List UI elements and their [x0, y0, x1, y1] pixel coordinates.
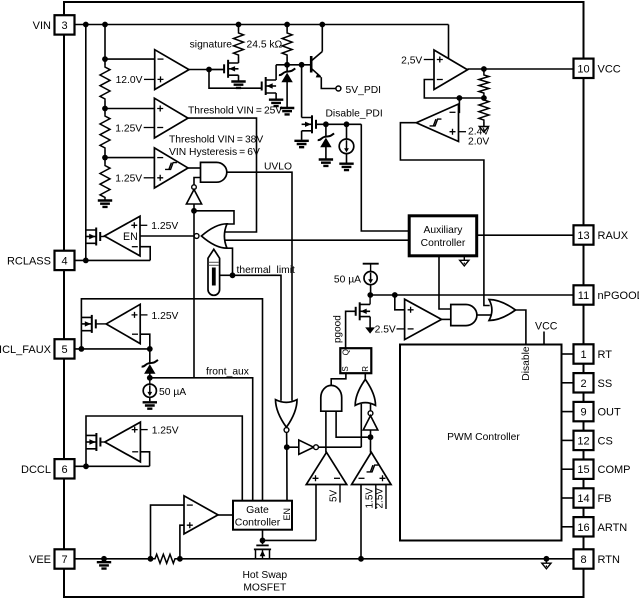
wire EN gate output to EN comparator	[140, 235, 194, 237]
ground I1	[339, 164, 353, 170]
wire A3 input1 from U8	[325, 411, 327, 452]
wire U5 output to VCC pin	[468, 68, 574, 70]
wire G2 input	[370, 430, 372, 437]
nor-gate EN output bubble	[194, 234, 199, 239]
wire M2 gate lead	[209, 69, 224, 71]
node U5 output	[481, 66, 487, 72]
svg-text:S: S	[341, 366, 350, 371]
resistor R sense	[154, 554, 177, 563]
wire U7 output to AND	[442, 318, 451, 320]
svg-text:12: 12	[577, 435, 589, 447]
svg-text:Threshold VIN = 25V: Threshold VIN = 25V	[188, 106, 282, 117]
ground Z2	[319, 160, 333, 166]
op-amp U10 ICL comparator	[106, 304, 140, 343]
svg-text:6: 6	[61, 464, 67, 476]
svg-text:10: 10	[577, 63, 589, 75]
wire M7 gate to U11	[100, 441, 105, 443]
svg-text:2,5V: 2,5V	[401, 55, 422, 66]
wire A2 output to OR	[477, 314, 491, 316]
svg-text:Controller: Controller	[421, 238, 466, 249]
node front_aux left	[147, 375, 153, 381]
transistor M7 DCCL MOSFET	[86, 435, 96, 448]
wire tap1 to comparator U1 inverting input	[105, 58, 155, 60]
wire Z2 to ground	[325, 147, 327, 160]
wire nPGOOD net	[370, 294, 573, 296]
svg-text:CS: CS	[598, 435, 613, 447]
wire VIN to RCLASS MOSFET M1 drain-source column	[85, 25, 87, 261]
svg-text:2.0V: 2.0V	[468, 136, 489, 147]
wire U1 output	[189, 69, 224, 71]
wire O1 output to PWM Disable	[516, 310, 526, 345]
ground I3	[143, 402, 157, 408]
and-gate UVLO	[201, 162, 227, 182]
svg-text:VIN Hysteresis = 6V: VIN Hysteresis = 6V	[169, 147, 260, 158]
node O3 output junction	[284, 444, 290, 450]
node nPGOOD comparator tap	[392, 292, 398, 298]
pin 5 ICL_FAUX box	[55, 339, 75, 358]
node U9 minus tap	[358, 556, 364, 562]
pin 12 CS box	[574, 431, 594, 450]
node sense right	[177, 556, 183, 562]
inverter G3 bubble	[314, 445, 319, 450]
resistor R feedback bottom	[479, 98, 489, 122]
svg-text:5V_PDI: 5V_PDI	[346, 85, 382, 96]
svg-text:PWM Controller: PWM Controller	[447, 432, 520, 443]
wire RCLASS pin net	[75, 259, 151, 261]
inverter G2 bubble	[368, 411, 373, 416]
wire tap2 to comparator U2 plus input	[105, 108, 154, 110]
wire U11 minus loop	[140, 452, 149, 467]
wire PWM pin stub	[562, 353, 574, 355]
svg-text:front_aux: front_aux	[206, 366, 250, 377]
wire gate node to U8 plus input	[263, 539, 317, 541]
wire PWM pin stub	[562, 382, 574, 384]
svg-text:24.5 kΩ: 24.5 kΩ	[247, 39, 283, 50]
wire EN gate bottom input to thermal node	[227, 248, 233, 275]
node G2 input junction	[368, 434, 374, 440]
and-gate A3 (points up)	[321, 385, 342, 411]
svg-text:1: 1	[580, 349, 586, 361]
svg-text:9: 9	[580, 407, 586, 419]
wire I3 to ground	[149, 397, 151, 401]
wire PWM pin stub	[562, 411, 574, 413]
node ladder tap 3	[102, 155, 108, 161]
svg-text:12.0V: 12.0V	[116, 75, 143, 86]
svg-text:Auxiliary: Auxiliary	[424, 225, 464, 236]
pin 9 OUT box	[574, 402, 594, 421]
wire U12 output to Gate Controller	[218, 514, 233, 516]
diode Z1 signature zener	[286, 65, 288, 72]
wire Z1 to ground	[286, 82, 288, 107]
wire thermal_limit to NOR input	[233, 275, 282, 401]
wire Disable_PDI net	[316, 123, 361, 125]
wire ICL_FAUX pin net	[75, 348, 150, 350]
svg-text:COMP: COMP	[598, 464, 631, 476]
ground ladder	[98, 201, 112, 207]
svg-text:7: 7	[61, 554, 67, 566]
wire EN gate input2	[223, 231, 225, 233]
wire G3 output to O2 left input	[318, 446, 361, 448]
wire Gate Controller output node	[262, 530, 264, 545]
op-amp U4 EN classification comparator	[104, 216, 140, 256]
nor-gate EN (points left) body	[201, 224, 227, 248]
pin 7 VEE box	[55, 549, 75, 568]
label 1.25V U10	[140, 314, 147, 316]
wire Auxiliary Controller bottom to AND	[439, 256, 451, 309]
wire U2 output to EN gate input	[188, 118, 257, 232]
wire M4 source to ground	[301, 131, 303, 140]
svg-text:4: 4	[61, 255, 67, 267]
terminal 5V_PDI	[336, 86, 341, 91]
node ICL junction 2	[147, 346, 153, 352]
svg-text:R: R	[361, 366, 370, 372]
pin 16 ARTN box	[574, 517, 594, 536]
svg-text:VIN: VIN	[33, 20, 51, 32]
current source I2 50uA	[370, 264, 372, 272]
node ICL junction 1	[79, 346, 85, 352]
op-amp U12 gate drive comparator	[184, 496, 218, 534]
svg-text:Gate: Gate	[246, 504, 269, 516]
inverter G2 triangle (points up)	[363, 416, 378, 430]
wire feedback tap to U6 inverting input	[458, 98, 461, 112]
wire thermometer to thermal node	[220, 274, 233, 276]
op-amp U7 pgood comparator	[405, 299, 442, 339]
svg-text:EN: EN	[282, 508, 292, 521]
ground arrow RTN	[545, 559, 547, 563]
wire O2 right input to inverter G2	[370, 404, 372, 411]
wire PWM pin stub	[562, 526, 574, 528]
svg-text:RAUX: RAUX	[598, 230, 629, 242]
wire M5 gate to latch Q	[346, 311, 356, 348]
wire Q1 collector to VIN rail	[321, 25, 323, 52]
svg-text:3: 3	[61, 20, 67, 32]
wire tap3 to comparator U3 inverting input	[105, 157, 154, 159]
wire U8 plus input down	[315, 485, 317, 541]
wire U4 minus loop to RCLASS pin	[140, 247, 150, 261]
pin 4 RCLASS box	[55, 251, 75, 270]
svg-text:MOSFET: MOSFET	[243, 582, 287, 593]
wire DCCL pin net	[75, 465, 150, 467]
svg-text:ARTN: ARTN	[598, 522, 628, 534]
op-amp U6 VCC UVLO schmitt (points left)	[416, 104, 458, 142]
wire U8 minus ref stub	[339, 485, 341, 503]
op-amp U2 threshold comparator	[154, 98, 188, 138]
label 1.25V U4	[140, 224, 147, 226]
svg-text:RCLASS: RCLASS	[7, 255, 51, 267]
diode Z3 ICL zener	[149, 349, 151, 364]
wire I1 to ground	[346, 154, 348, 163]
svg-text:Disable: Disable	[521, 346, 532, 381]
transistor M5 pgood MOSFET	[369, 295, 371, 304]
transistor M8 Hot Swap MOSFET	[256, 544, 268, 546]
wire PWM pin stub	[562, 468, 574, 470]
block PWM Controller	[400, 345, 562, 541]
op-amp U8 5V comparator (points up)	[306, 452, 347, 484]
nor-gate O3 output bubble	[284, 428, 289, 433]
node VIN rail junction	[102, 22, 108, 28]
svg-text:1.25V: 1.25V	[152, 311, 179, 322]
wire O2 left input	[360, 404, 362, 447]
svg-text:5: 5	[61, 344, 67, 356]
svg-text:nPGOOD: nPGOOD	[598, 290, 639, 302]
node RTN arrow tap	[544, 556, 550, 562]
op-amp U3 UVLO schmitt comparator	[154, 148, 188, 188]
node VIN rail junction	[319, 22, 325, 28]
wire G1 input	[193, 204, 195, 211]
svg-text:Threshold VIN = 38V: Threshold VIN = 38V	[169, 134, 263, 145]
wire AND second input stub	[194, 178, 201, 185]
node thermal_limit	[230, 272, 236, 278]
node nPGOOD pgood-fet tap	[367, 292, 373, 298]
resistor R signature	[238, 25, 240, 32]
wire front_aux vertical	[193, 211, 195, 378]
wire M5 source to arrow ground	[369, 317, 371, 328]
wire I2 to nPGOOD net	[370, 285, 372, 295]
svg-text:8: 8	[580, 554, 586, 566]
svg-text:pgood: pgood	[333, 315, 344, 343]
op-amp U5 VCC regulator comparator	[434, 50, 468, 90]
wire base node	[276, 64, 311, 66]
wire U9 plus ref stub 1.5V	[375, 485, 377, 510]
wire PWM pin stub	[562, 497, 574, 499]
resistor ladder R1	[100, 65, 110, 101]
wire PWM pin stub	[562, 439, 574, 441]
node ladder tap 1	[102, 56, 108, 62]
svg-text:16: 16	[577, 522, 589, 534]
svg-text:1.5V: 1.5V	[364, 488, 375, 509]
svg-text:1.25V: 1.25V	[115, 123, 142, 134]
wire VEE rail left	[75, 558, 154, 560]
inverter G1 triangle	[186, 190, 201, 205]
svg-text:2.5V: 2.5V	[375, 488, 386, 509]
pin 3 VIN box	[55, 15, 75, 34]
svg-text:1.25V: 1.25V	[152, 426, 179, 437]
svg-text:RT: RT	[598, 349, 613, 361]
wire VIN rail	[75, 24, 449, 26]
wire U10 minus loop	[140, 334, 150, 349]
svg-text:2: 2	[580, 378, 586, 390]
wire junction to U9 output	[370, 437, 372, 452]
svg-text:FB: FB	[598, 493, 612, 505]
pin 8 RTN box	[574, 549, 594, 568]
svg-text:11: 11	[578, 290, 589, 302]
ground arrow Auxiliary Controller	[463, 256, 465, 260]
wire junction to inverter G3	[287, 446, 299, 448]
transistor M6 ICL MOSFET	[81, 317, 91, 330]
svg-text:VCC: VCC	[598, 63, 621, 75]
svg-text:14: 14	[577, 493, 589, 505]
wire tee to EN gate top input	[194, 211, 234, 224]
op-amp U9 gate schmitt comparator (points up)	[352, 452, 392, 484]
node ladder tap 2	[102, 106, 108, 112]
wire O3 output node	[286, 432, 288, 500]
resistor R feedback top	[483, 69, 485, 73]
op-amp U1 12.0V comparator	[155, 50, 189, 90]
pin 1 RT box	[574, 344, 594, 363]
wire U5 minus feedback loop	[424, 80, 484, 99]
ground M4 source	[294, 141, 308, 147]
node Disable zener tap	[323, 121, 329, 127]
svg-text:SS: SS	[598, 378, 613, 390]
block SR latch	[340, 348, 371, 373]
svg-text:1.25V: 1.25V	[115, 174, 142, 185]
svg-text:ICL_FAUX: ICL_FAUX	[0, 344, 52, 356]
inverter G1 bubble	[192, 185, 197, 190]
wire AND S output to latch	[331, 373, 346, 385]
wire U12 plus to VEE sense	[180, 525, 184, 559]
wire M6 gate to U10	[96, 323, 107, 325]
nor-gate O3 (points down) body	[276, 400, 298, 428]
block Auxiliary Controller	[409, 216, 477, 256]
resistor ladder R2	[100, 114, 110, 150]
ground arrow feedback divider	[479, 127, 488, 133]
svg-text:OUT: OUT	[598, 407, 622, 419]
wire Q1 emitter to 5V_PDI terminal	[321, 77, 336, 88]
node gate junction	[260, 538, 266, 544]
svg-text:Q: Q	[341, 349, 350, 355]
node zener top	[284, 62, 290, 68]
pin 11 nPGOOD box	[574, 285, 594, 304]
node minus loop tap	[457, 95, 463, 101]
wire Disable_PDI to Auxiliary Controller	[361, 124, 409, 231]
svg-text:Hot Swap: Hot Swap	[242, 570, 287, 581]
current source I1	[346, 124, 348, 139]
pin 2 SS box	[574, 373, 594, 392]
op-amp U11 DCCL comparator	[105, 422, 141, 462]
wire ladder mid2	[104, 150, 106, 164]
ground M3 source	[269, 100, 283, 106]
wire ladder mid1	[104, 101, 106, 114]
wire DCCL rail	[86, 416, 242, 501]
pin 14 FB box	[574, 488, 594, 507]
svg-text:50 µA: 50 µA	[159, 387, 186, 398]
svg-text:thermal_limit: thermal_limit	[237, 265, 296, 276]
pin 6 DCCL box	[55, 459, 75, 478]
wire comparator tap to U7 plus	[395, 295, 405, 310]
wire U12 minus to VEE sense	[151, 505, 185, 559]
wire U3 output to AND	[188, 167, 201, 169]
wire M2 source to ground	[238, 75, 240, 80]
wire VEE rail right	[177, 558, 574, 560]
node VIN rail junction	[83, 22, 89, 28]
wire junction to A3 input2	[336, 411, 370, 437]
wire Auxiliary Controller to RAUX	[477, 234, 574, 236]
node VIN rail junction	[284, 22, 290, 28]
wire M3 gate lead	[259, 87, 262, 89]
node front_aux tee	[191, 208, 197, 214]
svg-text:50 µA: 50 µA	[334, 274, 361, 285]
node Disable csrc tap	[344, 121, 350, 127]
svg-text:signature: signature	[190, 39, 233, 50]
svg-text:VEE: VEE	[29, 554, 51, 566]
node M3 drain tap	[299, 62, 305, 68]
wire node to M3 drain column	[275, 65, 277, 80]
or-gate O2 (points up)	[355, 379, 375, 405]
wire U6 output routing	[400, 123, 489, 306]
wire ladder top	[104, 25, 106, 66]
wire OR R output to latch	[364, 373, 366, 379]
and-gate A2 pgood AND	[451, 305, 477, 326]
wire front_aux net	[150, 378, 253, 501]
transistor M2 signature MOSFET	[228, 63, 238, 75]
node RCLASS junction	[83, 258, 89, 264]
transistor M1 RCLASS MOSFET	[86, 230, 96, 243]
wire EN gate input3 to Auxiliary Controller	[225, 239, 410, 241]
label 2.4V 2.0V	[459, 131, 467, 133]
svg-text:RTN: RTN	[598, 554, 620, 566]
node DCCL junction	[83, 463, 89, 469]
resistor R 24.5k	[286, 25, 288, 32]
resistor ladder R3	[100, 164, 110, 200]
wire M3 source to ground	[275, 93, 277, 99]
wire U9 plus ref stub 2.5V	[385, 485, 387, 510]
label 1.25V U11	[140, 429, 147, 431]
current source I3 50uA	[149, 378, 151, 384]
svg-text:EN: EN	[123, 231, 138, 243]
svg-text:13: 13	[577, 230, 589, 242]
transistor M3 PDI MOSFET	[266, 80, 276, 93]
node feedback tap	[481, 95, 487, 101]
wire U1 output to M2 gate	[209, 70, 262, 89]
thermal limit sensor (thermometer)	[208, 249, 220, 295]
ground VEE	[97, 562, 111, 568]
svg-text:Disable_PDI: Disable_PDI	[326, 109, 383, 120]
svg-text:15: 15	[577, 464, 589, 476]
wire ICL rail	[81, 299, 262, 501]
wire M3 drain column down to M4	[301, 65, 303, 118]
diode Z2 Disable zener	[325, 124, 327, 137]
pin 13 RAUX box	[574, 225, 594, 244]
pin 15 COMP box	[574, 460, 594, 479]
svg-text:Controller: Controller	[235, 517, 281, 529]
svg-text:5V: 5V	[329, 489, 340, 502]
node sense left	[148, 556, 154, 562]
wire M1 gate to EN comparator output	[100, 236, 104, 238]
svg-text:1.25V: 1.25V	[151, 221, 178, 232]
svg-text:UVLO: UVLO	[264, 162, 292, 173]
svg-text:2.5V: 2.5V	[375, 325, 396, 336]
or-gate O1 nPGOOD OR	[489, 300, 516, 321]
node U1 output junction	[206, 67, 212, 73]
node VEE ground tap	[101, 556, 107, 562]
wire UVLO net	[227, 172, 292, 401]
ground Z1	[280, 108, 294, 114]
transistor M4 Disable MOSFET	[302, 118, 312, 131]
block Gate Controller	[233, 501, 292, 530]
wire VCC stub to PWM	[543, 332, 545, 345]
node VIN rail junction	[236, 22, 242, 28]
pin 10 VCC box	[574, 59, 594, 78]
svg-text:VCC: VCC	[535, 321, 558, 333]
rail bar 50uA supply	[363, 263, 379, 265]
transistor Q1 NPN	[310, 56, 313, 73]
wire VIN to VCC comparator supply	[448, 25, 450, 59]
wire Z3 to front_aux	[149, 374, 151, 378]
svg-text:DCCL: DCCL	[21, 464, 51, 476]
ground arrow M5 (to VEE)	[366, 328, 375, 333]
wire U9 minus input down to VEE rail	[360, 485, 362, 559]
ground M2 source	[231, 82, 245, 88]
inverter G3 triangle	[299, 440, 314, 454]
